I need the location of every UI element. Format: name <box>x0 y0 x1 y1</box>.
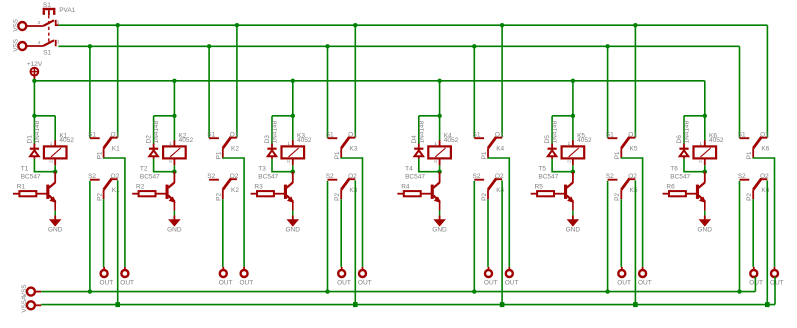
relay contact K3 bottom <box>328 178 356 199</box>
transistor T6 <box>696 172 706 211</box>
svg-text:O2: O2 <box>348 173 357 180</box>
svg-text:P2: P2 <box>746 193 753 201</box>
svg-text:D1: D1 <box>26 135 33 144</box>
junction rail A <box>88 289 92 293</box>
svg-text:D6: D6 <box>676 135 683 144</box>
junction collector node <box>571 170 575 174</box>
wire K6 top contact common to OUT pad <box>753 158 774 267</box>
relay contact K1 top <box>90 137 118 158</box>
junction +12V rail <box>291 79 295 83</box>
wire to diode D5 cathode <box>551 116 553 144</box>
svg-text:O1: O1 <box>760 131 769 138</box>
svg-text:S1: S1 <box>43 49 51 56</box>
ground <box>567 215 580 226</box>
svg-text:OUT: OUT <box>337 280 351 287</box>
ground <box>433 215 446 226</box>
svg-text:K2: K2 <box>231 145 239 152</box>
switch S1 pole 2 blade <box>43 40 54 46</box>
junction rail A <box>605 289 609 293</box>
pad OUT circle <box>241 270 248 277</box>
junction rail B <box>115 302 120 307</box>
svg-text:VSS: VSS <box>21 284 28 297</box>
wire rail2 drop to K1 contact S pin <box>89 46 91 138</box>
pad OUT circle <box>485 270 492 277</box>
wire rail A <box>41 291 755 293</box>
svg-text:2: 2 <box>698 160 704 163</box>
svg-text:S1: S1 <box>473 131 481 138</box>
svg-text:GND: GND <box>167 226 182 233</box>
wire rail 2 (switch pole 2 net) <box>58 45 739 47</box>
svg-text:BC547: BC547 <box>405 173 425 180</box>
wire emitter to GND <box>439 211 441 216</box>
relay coil K3 <box>282 140 305 165</box>
wire +12V rail drop to K2 coil <box>173 81 175 116</box>
pad circle <box>27 301 35 309</box>
wire K3 bottom S pin to lower rail A <box>327 181 329 292</box>
relay coil K2 <box>163 140 186 165</box>
wire coil feed jog channel 3 <box>272 115 293 117</box>
svg-text:VSSA: VSSA <box>21 295 28 313</box>
junction coil feed <box>703 114 707 118</box>
svg-text:4052: 4052 <box>577 137 592 144</box>
svg-text:4052: 4052 <box>709 137 724 144</box>
junction rail B <box>500 302 505 307</box>
svg-text:VSS: VSS <box>12 39 19 52</box>
svg-text:K6: K6 <box>761 187 769 194</box>
junction rail2 <box>325 44 329 48</box>
wire rail1 drop to K5 contact O pin <box>634 25 636 137</box>
wire to diode D6 cathode <box>683 116 685 144</box>
wire +12V rail drop to K3 coil <box>292 81 294 116</box>
relay contact K2 bottom <box>209 178 237 199</box>
wire K4 bottom contact common to OUT pad <box>487 199 489 267</box>
junction rail1 <box>235 23 239 27</box>
svg-text:OUT: OUT <box>100 280 114 287</box>
svg-text:K1: K1 <box>112 145 120 152</box>
svg-text:P2: P2 <box>614 193 621 201</box>
wire pad to switch pole 1 <box>26 25 43 27</box>
supply +12V symbol <box>30 67 39 76</box>
wire rail2 drop to K2 contact S pin <box>208 46 210 138</box>
wire relay K5 pin2 to collector node <box>572 165 574 172</box>
pad lower left 2 pin <box>35 304 42 306</box>
junction coil feed <box>437 114 441 118</box>
diode D5 <box>548 144 557 159</box>
wire relay K1 pin2 to collector node <box>54 165 56 172</box>
junction rail B <box>765 302 770 307</box>
wire rail 1 (switch pole 1 net) <box>58 24 767 26</box>
relay coil K1 <box>44 140 67 165</box>
relay coil K4 <box>428 140 451 165</box>
wire pad to switch pole 2 <box>26 45 43 47</box>
svg-text:K5: K5 <box>630 187 638 194</box>
svg-text:K6: K6 <box>761 145 769 152</box>
wire coil feed jog channel 1 <box>34 115 55 117</box>
junction collector node <box>437 170 441 174</box>
wire coil feed jog channel 6 <box>684 115 705 117</box>
svg-text:P1: P1 <box>614 151 621 159</box>
svg-text:GND: GND <box>566 226 581 233</box>
resistor R2 <box>132 191 168 196</box>
svg-text:K5: K5 <box>630 145 638 152</box>
junction collector node <box>53 170 57 174</box>
pad circle <box>27 288 35 296</box>
pad OUT (channel 4) <box>488 267 490 270</box>
transistor T3 <box>284 172 294 211</box>
junction coil feed <box>291 114 295 118</box>
pad OUT (channel 3) <box>362 267 364 270</box>
pad circle <box>18 42 26 50</box>
relay contact K1 bottom <box>90 178 118 199</box>
svg-text:OUT: OUT <box>505 280 519 287</box>
svg-text:P2: P2 <box>334 193 341 201</box>
svg-text:T3: T3 <box>258 166 266 173</box>
relay contact K2 top <box>209 137 237 158</box>
svg-text:D3: D3 <box>264 135 271 144</box>
svg-text:4052: 4052 <box>59 137 74 144</box>
pad OUT circle <box>359 270 366 277</box>
svg-text:2: 2 <box>49 160 55 163</box>
junction rail A <box>472 289 476 293</box>
svg-text:P2: P2 <box>216 193 223 201</box>
svg-text:1: 1 <box>50 141 53 147</box>
wire K5 bottom O pin to lower rail B <box>634 180 636 304</box>
svg-text:O1: O1 <box>111 131 120 138</box>
svg-text:OUT: OUT <box>770 280 784 287</box>
svg-text:GND: GND <box>432 226 447 233</box>
svg-text:1: 1 <box>169 141 172 147</box>
svg-text:P1: P1 <box>216 151 223 159</box>
wire K4 bottom S pin to lower rail A <box>473 181 475 292</box>
pad OUT circle <box>101 270 108 277</box>
svg-text:O1: O1 <box>628 131 637 138</box>
svg-text:S2: S2 <box>606 173 614 180</box>
svg-text:S2: S2 <box>207 173 215 180</box>
svg-text:BC547: BC547 <box>670 173 690 180</box>
relay contact K5 top <box>608 137 636 158</box>
svg-text:PVA1: PVA1 <box>59 7 76 14</box>
switch S1 actuator <box>43 8 56 15</box>
wire rail2 drop to K4 contact S pin <box>473 46 475 138</box>
svg-text:S2: S2 <box>473 173 481 180</box>
wire coil feed jog channel 2 <box>154 115 175 117</box>
svg-text:S2: S2 <box>88 173 96 180</box>
svg-text:GND: GND <box>286 226 301 233</box>
wire +12V drop to D1/K1 <box>33 81 35 116</box>
svg-text:R2: R2 <box>136 184 145 191</box>
svg-text:K3: K3 <box>349 187 357 194</box>
pad OUT (channel 3) <box>341 267 343 270</box>
svg-text:P1: P1 <box>481 151 488 159</box>
pad OUT (channel 2) <box>243 267 245 270</box>
pad OUT (channel 2) <box>222 267 224 270</box>
junction coil feed <box>172 114 176 118</box>
diode D2 <box>149 144 158 159</box>
junction +12V rail <box>437 79 441 83</box>
diode D3 <box>267 144 276 159</box>
relay contact K4 bottom <box>474 178 502 199</box>
wire rail2 drop to K5 contact S pin <box>607 46 609 138</box>
svg-text:OUT: OUT <box>219 280 233 287</box>
resistor R1 <box>13 191 49 196</box>
wire rail 1 end drop to K6 contact O pin <box>766 25 768 137</box>
svg-text:P2: P2 <box>96 193 103 201</box>
svg-text:3: 3 <box>57 39 60 45</box>
wire rail1 drop to K2 contact O pin <box>236 25 238 137</box>
wire +12V rail end drop to K6 coil <box>704 81 706 116</box>
junction collector node <box>703 170 707 174</box>
wire K4 bottom O pin to lower rail B <box>501 180 503 304</box>
wire rail1 drop to K4 contact O pin <box>501 25 503 137</box>
svg-text:2: 2 <box>168 160 174 163</box>
svg-text:S1: S1 <box>88 131 96 138</box>
wire emitter to GND <box>292 211 294 216</box>
svg-text:1N4148: 1N4148 <box>153 120 160 143</box>
wire relay K4 pin2 to collector node <box>439 165 441 172</box>
supply pin <box>33 76 35 80</box>
svg-text:OUT: OUT <box>638 280 652 287</box>
wire relay K3 pin2 to collector node <box>292 165 294 172</box>
wire D1 anode to collector node <box>34 159 55 172</box>
wire coil feed jog channel 4 <box>419 115 440 117</box>
wire to diode D2 cathode <box>153 116 155 144</box>
wire to relay K2 pin 1 <box>173 116 175 141</box>
svg-text:K4: K4 <box>496 145 504 152</box>
pad OUT (channel 6) <box>774 267 776 270</box>
wire K1 top contact common to OUT pad <box>104 158 125 267</box>
junction collector node <box>291 170 295 174</box>
junction +12V rail <box>571 79 575 83</box>
transistor T1 <box>46 172 56 211</box>
wire emitter to GND <box>173 211 175 216</box>
wire D4 anode to collector node <box>419 159 440 172</box>
diode D6 <box>679 144 688 159</box>
svg-text:K3: K3 <box>349 145 357 152</box>
transistor T5 <box>564 172 574 211</box>
wire K2 top contact common to OUT pad <box>223 158 244 267</box>
svg-text:T4: T4 <box>405 166 413 173</box>
switch S1 pole 1 blade <box>43 20 54 26</box>
svg-text:VSS: VSS <box>12 19 19 32</box>
ground <box>699 215 712 226</box>
svg-text:OUT: OUT <box>484 280 498 287</box>
resistor R6 <box>663 191 699 196</box>
wire K1 bottom O pin to lower rail B <box>117 180 119 304</box>
svg-text:D2: D2 <box>146 135 153 144</box>
relay contact K5 bottom <box>608 178 636 199</box>
svg-text:O2: O2 <box>111 173 120 180</box>
pad OUT circle <box>338 270 345 277</box>
svg-text:OUT: OUT <box>120 280 134 287</box>
wire relay K2 pin2 to collector node <box>173 165 175 172</box>
switch S1 pole 1 fixed contact <box>55 20 57 25</box>
wire K1 bottom contact common to OUT pad <box>103 199 105 267</box>
wire rail B rise to K6 OUT pad <box>774 277 776 305</box>
ground <box>49 215 62 226</box>
svg-text:P1: P1 <box>334 151 341 159</box>
svg-text:4052: 4052 <box>179 137 194 144</box>
pad OUT (channel 1) <box>124 267 126 270</box>
svg-text:R1: R1 <box>17 184 26 191</box>
wire rail A rise to K6 OUT pad <box>754 277 756 292</box>
junction rail2 <box>605 44 609 48</box>
svg-text:S1: S1 <box>738 131 746 138</box>
relay contact K3 top <box>328 137 356 158</box>
svg-text:T6: T6 <box>670 166 678 173</box>
transistor T4 <box>431 172 441 211</box>
svg-text:4052: 4052 <box>297 137 312 144</box>
svg-text:2: 2 <box>566 160 572 163</box>
wire D6 anode to collector node <box>684 159 705 172</box>
svg-text:T2: T2 <box>140 166 148 173</box>
svg-text:1N4148: 1N4148 <box>552 120 559 143</box>
wire +12V rail drop to K5 coil <box>572 81 574 116</box>
junction rail1 <box>633 23 637 27</box>
svg-text:T1: T1 <box>21 166 29 173</box>
wire rail2 drop to K3 contact S pin <box>327 46 329 138</box>
pad OUT (channel 5) <box>642 267 644 270</box>
wire K5 bottom S pin to lower rail A <box>607 181 609 292</box>
diode D4 <box>414 144 423 159</box>
wire D3 anode to collector node <box>272 159 293 172</box>
wire rail 2 end drop to K6 contact S pin <box>739 46 741 138</box>
wire K3 top contact common to OUT pad <box>341 158 362 267</box>
svg-text:R4: R4 <box>401 184 410 191</box>
svg-text:4: 4 <box>38 40 41 46</box>
svg-text:1N4148: 1N4148 <box>272 120 279 143</box>
junction coil feed <box>32 114 36 118</box>
svg-text:O2: O2 <box>628 173 637 180</box>
junction rail2 <box>207 44 211 48</box>
junction rail A <box>737 289 741 293</box>
junction rail2 <box>472 44 476 48</box>
wire K2 bottom contact common to OUT pad <box>222 199 224 267</box>
svg-text:OUT: OUT <box>240 280 254 287</box>
svg-text:2: 2 <box>38 20 41 26</box>
svg-text:P1: P1 <box>96 151 103 159</box>
svg-text:OUT: OUT <box>358 280 372 287</box>
wire rail1 drop to K3 contact O pin <box>354 25 356 137</box>
svg-text:T5: T5 <box>538 166 546 173</box>
svg-text:OUT: OUT <box>617 280 631 287</box>
relay coil K6 <box>694 140 717 165</box>
junction coil feed <box>571 114 575 118</box>
svg-text:D5: D5 <box>544 135 551 144</box>
svg-text:S1: S1 <box>207 131 215 138</box>
resistor R4 <box>397 191 433 196</box>
svg-text:1: 1 <box>568 141 571 147</box>
relay contact K6 top <box>740 137 768 158</box>
wire to relay K5 pin 1 <box>572 116 574 141</box>
switch S1 pole 2 fixed contact <box>55 40 57 47</box>
ground <box>168 215 181 226</box>
svg-text:P2: P2 <box>481 193 488 201</box>
wire to relay K1 pin 1 <box>54 116 56 141</box>
switch S1 linkage (dashed) <box>48 15 50 44</box>
pad OUT circle <box>618 270 625 277</box>
wire +12V rail drop to K4 coil <box>439 81 441 116</box>
wire K6 bottom contact common to OUT pad <box>752 199 754 267</box>
svg-text:K1: K1 <box>112 187 120 194</box>
wire K6 bottom O pin to lower rail B <box>766 180 768 304</box>
relay coil K5 <box>562 140 585 165</box>
pad OUT circle <box>771 270 778 277</box>
resistor R5 <box>531 191 567 196</box>
svg-text:O1: O1 <box>230 131 239 138</box>
pad OUT (channel 4) <box>508 267 510 270</box>
wire to relay K4 pin 1 <box>439 116 441 141</box>
svg-text:K2: K2 <box>231 187 239 194</box>
junction +12V node <box>32 79 36 83</box>
svg-text:BC547: BC547 <box>21 173 41 180</box>
svg-text:O1: O1 <box>495 131 504 138</box>
svg-text:R3: R3 <box>254 184 263 191</box>
wire to diode D4 cathode <box>418 116 420 144</box>
junction rail1 <box>116 23 120 27</box>
wire K5 top contact common to OUT pad <box>621 158 642 267</box>
svg-text:BC547: BC547 <box>140 173 160 180</box>
svg-text:S1: S1 <box>43 2 51 9</box>
transistor T2 <box>166 172 176 211</box>
svg-text:R6: R6 <box>666 184 675 191</box>
svg-text:GND: GND <box>48 226 63 233</box>
wire to relay K6 pin 1 <box>704 116 706 141</box>
wire +12V rail <box>34 80 704 82</box>
svg-text:O2: O2 <box>495 173 504 180</box>
resistor R3 <box>251 191 287 196</box>
svg-text:4052: 4052 <box>444 137 459 144</box>
junction rail A <box>325 289 329 293</box>
svg-text:GND: GND <box>698 226 713 233</box>
svg-text:O2: O2 <box>760 173 769 180</box>
junction rail2 <box>88 44 92 48</box>
junction rail1 <box>353 23 357 27</box>
wire emitter to GND <box>704 211 706 216</box>
pad OUT (channel 1) <box>103 267 105 270</box>
svg-text:O1: O1 <box>348 131 357 138</box>
pad OUT circle <box>750 270 757 277</box>
svg-text:2: 2 <box>286 160 292 163</box>
svg-text:1N4148: 1N4148 <box>684 120 691 143</box>
wire K6 bottom S pin to lower rail A <box>739 181 741 292</box>
svg-text:S2: S2 <box>326 173 334 180</box>
junction rail B <box>633 302 638 307</box>
wire D2 anode to collector node <box>154 159 175 172</box>
pad lower left 1 pin <box>35 291 42 293</box>
wire to relay K3 pin 1 <box>292 116 294 141</box>
junction collector node <box>172 170 176 174</box>
pad OUT circle <box>639 270 646 277</box>
svg-text:D4: D4 <box>411 135 418 144</box>
svg-text:BC547: BC547 <box>538 173 558 180</box>
svg-text:S1: S1 <box>326 131 334 138</box>
wire K4 top contact common to OUT pad <box>488 158 509 267</box>
svg-text:1N4148: 1N4148 <box>418 120 425 143</box>
svg-text:1N4148: 1N4148 <box>34 120 41 143</box>
pad circle <box>18 22 26 30</box>
svg-text:2: 2 <box>433 160 439 163</box>
junction +12V rail <box>172 79 176 83</box>
wire emitter to GND <box>54 211 56 216</box>
pad OUT (channel 5) <box>621 267 623 270</box>
svg-text:BC547: BC547 <box>258 173 278 180</box>
wire emitter to GND <box>572 211 574 216</box>
svg-text:1: 1 <box>287 141 290 147</box>
wire D5 anode to collector node <box>552 159 573 172</box>
pad OUT circle <box>121 270 128 277</box>
wire K5 bottom contact common to OUT pad <box>620 199 622 267</box>
junction rail1 <box>500 23 504 27</box>
